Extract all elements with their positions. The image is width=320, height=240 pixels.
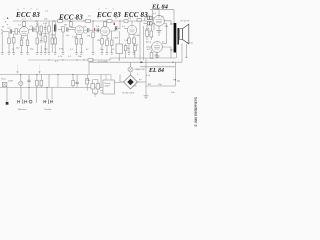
tone chain6 resistor [51,38,54,44]
lower rail y87.5 [0,87,101,89]
wire V6 anode to OT [162,47,174,50]
resistor R8 [75,39,78,45]
node dot x175.3 y79.8 [175,79,176,80]
node dot rail x54 [53,20,54,21]
wire speaker return right [185,44,187,58]
svg-text:Schaltbild MV 3: Schaltbild MV 3 [194,97,199,127]
wire to V2 grid [58,29,62,31]
input jack J1 [1,30,9,34]
wire jack drop x29 [28,88,30,100]
node dot rail x137 [136,20,137,21]
tone chain2 wires [40,32,42,53]
resistor R1 grid stopper [15,29,18,34]
wire right verticals x140 [139,21,141,60]
V1a internals [21,28,27,33]
wire C7 to V4 [118,21,121,28]
resistor in rail [107,20,112,23]
wire OT primary left down [170,50,172,58]
filter cluster resistor b [91,84,95,89]
svg-text:220V: 220V [8,80,14,82]
node dot gnd x93 [93,60,94,61]
wires to gnd [129,44,134,53]
ground tick x2 [1,53,4,55]
dashed arrow heater 2 [39,65,41,72]
capacitor C4 [67,27,68,31]
resistor R10 [92,32,95,38]
tone chain3 resistor [44,36,47,42]
power transformer box [103,80,115,94]
output transformer T1 secondary [177,28,179,45]
line y65 [140,66,175,68]
tone chain5 resistor [54,38,57,44]
svg-text:BV 30 W: BV 30 W [181,21,191,23]
resistor R12 [101,39,104,45]
wires cap x77 [76,75,78,88]
resistor R18 [150,31,153,37]
bridge rectifier GR1 outline [124,75,138,89]
resistor on ground rail [88,59,93,61]
junction arrow y62 [141,61,144,63]
tick at node [173,79,176,81]
svg-text:1M: 1M [97,40,100,42]
wire jack drop x21 [20,88,22,100]
wire B+ feed to output transformer [150,10,174,24]
wire up x101 [100,75,102,88]
wire C2 leads [27,35,29,53]
V2 internals [77,27,83,32]
wire lamp to bridge [130,72,132,75]
node dot rail x70 [69,20,70,21]
P2 wiper wire [118,31,120,60]
svg-text:B 250 C100: B 250 C100 [123,93,135,95]
tone chain5 wires [54,21,56,38]
filter cluster resistor a [86,79,89,85]
triode V3 envelope [100,26,109,35]
wire right verticals x143.5 [143,26,145,60]
node dot rail x120 [119,20,120,21]
capacitor C8 EL84a grid [147,16,152,19]
ground tick x81.3 [80,53,83,55]
ground tick x107 [106,53,109,55]
wire speaker bottom [181,43,183,62]
filter cluster resistor c [96,84,100,89]
V6 cathode cap [155,56,160,57]
wire V1a cathode down [21,35,23,40]
svg-text:EL 84: EL 84 [148,68,164,74]
gnd rail dots [63,60,64,61]
tone stack tie wire [37,33,49,35]
tone chain4 wires [48,21,50,53]
wire V4 grid left [124,27,127,29]
svg-text:1M: 1M [39,35,42,37]
wires to gnd [77,44,82,52]
wires R17 R18 [147,25,151,40]
svg-text:ECC 83: ECC 83 [96,11,121,19]
ground tick x55 [54,53,57,55]
resistor R14 [110,40,113,46]
capacitor C3 coupling [33,27,34,31]
speck above T1 [22,18,26,20]
resistor R5 cathode [20,40,23,46]
capacitor C7 crossed [115,26,118,30]
tone chain3 gnd [44,42,46,53]
svg-text:M: M [2,27,4,29]
tone chain3 cap [44,28,47,29]
wire transformer to bridge [115,81,124,84]
svg-text:ECC 83: ECC 83 [123,11,148,19]
mains box [2,82,7,86]
input jacks group1 [18,100,21,103]
ground tick x27.5 [26,53,29,55]
wire C3 to tone stack [35,29,38,31]
ground tick x13.7 [12,53,15,55]
wires cap x29 [28,75,30,88]
V5 internals [156,16,162,22]
ground tick x49 [48,53,51,55]
wire V2 out [84,29,87,31]
wire R3 leads [13,34,15,53]
ground tick x129 [128,53,131,55]
ground symbol PSU [144,96,149,99]
tone stack chain1 resistor [36,26,39,32]
tone chain1 to gnd [36,44,38,53]
tone chain2 resistor [40,26,43,32]
tone chain5 gnd [54,44,56,53]
wire pilot bottom [20,86,22,88]
wire V2 cathode chains [77,34,82,39]
ground rail main [28,59,55,61]
jack group1 c [29,100,32,103]
wire input2 vertical [1,34,3,53]
wire plate join [71,27,76,29]
ground tick x76.5 [75,53,78,55]
wires x72 [72,75,74,88]
svg-text:220V: 220V [105,86,111,88]
red mark 2 [113,23,115,25]
svg-text:a.f.: a.f. [45,11,48,13]
V5 cathode cap [157,31,162,32]
wire riser rail to feed [152,10,154,21]
resistor R2 [8,38,11,44]
wire x49 [48,75,50,88]
wire V5 cathode [158,25,160,36]
wire bridge right [138,81,147,83]
wire drop x89 [88,62,90,74]
arrowhead heater 2 [38,71,40,74]
resistor in rail 2 [124,20,128,23]
node dot OT top [170,23,171,24]
pin specks label1 [18,8,37,10]
wire to V3 grid [96,29,101,31]
svg-text:Netztr.: Netztr. [105,82,112,85]
wire V3 cathodes [102,35,107,40]
ground tick x111.7 [110,53,113,55]
capacitor C1 input [10,29,11,33]
wire jack drop x7 [6,88,8,103]
faint rail y74.5 ext [90,74,111,76]
wire V4 anode to rail [131,21,133,25]
svg-text:AC-5: AC-5 [146,41,152,44]
tone chain3 wires [44,25,46,37]
resistor lower x72 [72,80,75,85]
wire C4 to grid [69,29,76,31]
wire V3 out [110,28,115,31]
node dot gnd x49 [49,60,50,61]
V6 cathode resistor [150,52,153,58]
wire R5 to ground [21,46,23,53]
node dot gnd x119 [119,60,120,61]
rail74 dots [20,74,21,75]
node dot OT bottom [170,49,171,50]
ground tick x134 [133,53,136,55]
wire bridge left stub [120,75,124,82]
wire C8 to EL84a grid [152,17,155,19]
triode V2 envelope [75,26,84,35]
triode V4 envelope [127,25,136,34]
svg-text:EL 84: EL 84 [151,3,168,10]
resistor extra V4 area a [124,46,127,51]
resistor R6 [62,27,65,33]
pentode V5 EL84a envelope [154,15,165,26]
pot P1 dark bars [55,25,56,32]
bridge rectifier GR1 center [127,79,133,85]
capacitor C9 EL84b grid [147,22,152,25]
wire R6 down [62,32,64,53]
potentiometer box P2 [116,44,123,54]
svg-text:ECC 83: ECC 83 [15,11,40,19]
resistor R3 [13,38,16,44]
capacitor C6 [97,28,98,32]
speaker LS1 body [180,29,183,40]
wire y86 horizontal [146,85,175,87]
ground tick x9 [8,53,11,55]
rail87 dots [29,87,30,88]
V4 internals [129,27,135,32]
pilot lamp cross [19,82,22,85]
wire PSU right vertical [145,58,147,96]
svg-text:Tonabn.: Tonabn. [44,109,52,111]
ground tick x102 [101,53,104,55]
ground tick filter [94,95,97,96]
tone chain6 gnd [51,44,53,53]
resistor lower x36-42 [36,80,39,86]
pentode V6 EL84b envelope [152,42,163,53]
wire x58 lower [57,75,59,88]
stubs secondary to speaker [178,31,181,38]
capacitor C2 cathode bypass [26,40,29,46]
speck comma [7,18,8,19]
wire drive to V6 [146,46,152,48]
anode dot EL84a [159,15,160,16]
leads extra b [134,44,136,58]
tone chain4 resistor [48,26,51,32]
wire V2 anode to rail [70,21,72,28]
heater rail y74.5 [0,74,90,76]
wire V1a anode to rail [23,21,25,27]
triode V1a envelope [19,27,28,36]
node dot y62 x173 [172,62,173,63]
jack group2 b [49,99,53,104]
wire lamp top [130,62,132,67]
resistor extra V4 area b [134,46,137,51]
filter cluster wires [87,75,98,94]
capacitor lower x77 [76,82,79,84]
tone chain2 cap [40,41,43,42]
input jacks group2 [44,100,47,103]
wire R14 [111,31,113,53]
wire V5 screen [162,24,167,44]
svg-text:1M: 1M [64,25,67,27]
wire C8 left lead [144,18,148,23]
ground tick x93 [92,53,95,55]
plug square [6,102,9,105]
x93 riser [92,21,94,30]
wire V1a anode out [29,29,32,31]
resistor in rail R20k [58,20,63,23]
pilot lamp circle [19,81,23,85]
resistor R7 plate V2 [69,22,72,27]
wires resistor lower [37,75,41,88]
wire C5 on [90,29,94,31]
ground rail right segment [110,58,176,60]
wire C9 right [152,23,154,30]
resistor in rail [86,20,91,23]
resistor R13 [106,40,109,46]
V6 internals [154,43,160,50]
wire grid leak drop [8,32,10,39]
ground tick x41 [40,53,43,55]
resistor R16 [133,38,136,44]
transformer primary wires top [106,75,111,81]
resistor R4 plate V1a [23,22,26,27]
V3 internals [102,28,108,33]
svg-text:0,5M: 0,5M [113,38,118,40]
wire R10 [92,30,94,52]
wire V5 anode to OT [164,21,174,24]
anode feed EL84a from top [158,10,160,16]
speck low [7,24,8,25]
wire OT secondary bottom [175,53,177,59]
output transformer T1 primary [174,23,177,53]
wire jack drop x36.5 [36,88,38,103]
svg-text:1M: 1M [87,36,90,38]
transformer stubs left [100,88,103,94]
return line y61 [89,61,182,63]
resistor R9 [80,39,83,45]
lamp cross [129,68,132,71]
resistor R11 plate V3 [104,22,107,27]
pin specks label3 [99,8,113,10]
ground tick x45 [44,53,47,55]
wire V6 cathode [152,50,158,54]
capacitor C5 [88,28,89,32]
resistor R15 [128,38,131,44]
wire jack drop x52 [51,88,53,100]
wire V3 anode to rail [104,21,106,26]
EL84b cathode to rail [156,52,158,58]
node dot rail x84 [83,20,84,21]
resistor R17 [146,30,149,36]
PSU lamp circle [128,67,133,72]
capacitor lower x29 [28,80,31,82]
resistor on rail right [137,19,142,22]
ground tick x63 [62,53,65,55]
wire B+ top rail [13,20,147,22]
svg-text:La 2×4µF: La 2×4µF [98,60,108,63]
svg-text:Netz: Netz [2,78,7,81]
wire V4 cathodes [129,34,134,39]
wires to gnd [102,44,107,52]
wire input to grid [12,31,20,33]
tone chain1 wires [36,21,38,38]
wire jack drop x47 [46,88,48,100]
wire R2 to ground [8,44,10,53]
leads extra a [125,44,127,58]
ground tick x37 [36,53,39,55]
dashed arrow heater 1 [17,65,19,72]
tone chain6 wire [51,21,53,38]
tone chain1 resistor low [36,38,39,44]
wire pilot top [20,75,22,82]
red mark 1 [94,28,96,31]
jack group1 b [23,99,27,104]
speaker LS1 cone [183,24,189,44]
svg-text:Mikrofon: Mikrofon [18,108,27,111]
ground tick x21.5 [20,53,23,55]
node dot rail x36 [35,20,36,21]
arrowhead heater 1 [16,71,18,74]
wire x175.3 vertical [174,62,176,86]
